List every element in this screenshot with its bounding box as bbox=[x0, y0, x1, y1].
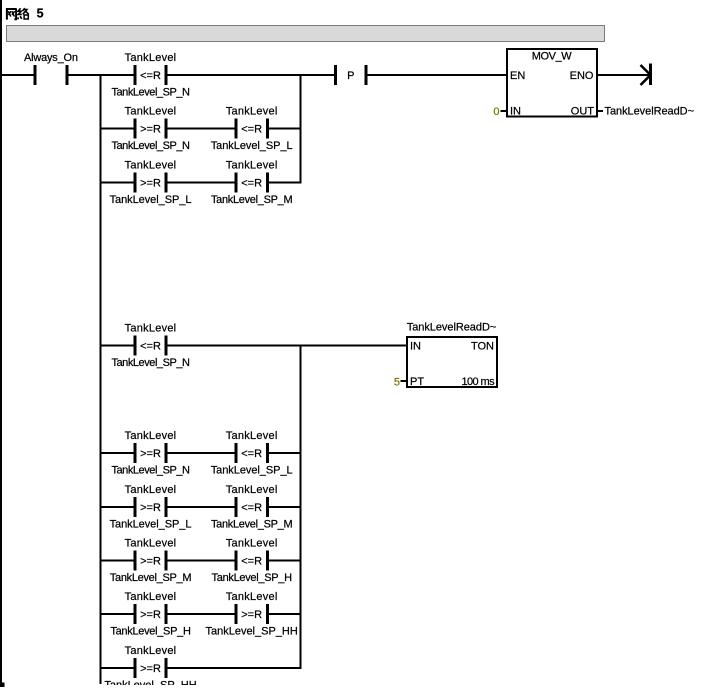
svg-text:TankLevel: TankLevel bbox=[125, 484, 177, 496]
svg-text:TON: TON bbox=[471, 341, 494, 353]
svg-text:>=R: >=R bbox=[140, 448, 161, 460]
contact TankLevel >=R TankLevel_SP_HH bbox=[205, 591, 297, 638]
contact TankLevel >=R TankLevel_SP_L bbox=[110, 484, 192, 531]
svg-text:TankLevel: TankLevel bbox=[125, 52, 177, 64]
wire bbox=[102, 560, 134, 562]
box TON timer TankLevelReadD~ bbox=[407, 322, 497, 389]
svg-text:TankLevel_SP_M: TankLevel_SP_M bbox=[211, 519, 293, 531]
wire bbox=[168, 560, 235, 562]
wire bbox=[368, 74, 507, 76]
operand 5 at PT pin bbox=[394, 377, 407, 389]
wire bbox=[269, 560, 302, 562]
wire bbox=[168, 506, 235, 508]
svg-text:0: 0 bbox=[493, 106, 499, 118]
svg-text:<=R: <=R bbox=[241, 556, 262, 568]
contact TankLevel <=R TankLevel_SP_M bbox=[211, 160, 293, 207]
svg-text:5: 5 bbox=[394, 377, 400, 389]
svg-text:>=R: >=R bbox=[140, 178, 161, 190]
svg-text:TankLevel_SP_L: TankLevel_SP_L bbox=[211, 465, 293, 477]
line continuation arrow bbox=[641, 64, 653, 86]
wire bbox=[102, 667, 134, 669]
svg-text:Always_On: Always_On bbox=[24, 52, 78, 64]
wire bbox=[168, 452, 235, 454]
svg-text:TankLevel_SP_N: TankLevel_SP_N bbox=[111, 140, 190, 152]
wire bbox=[68, 74, 99, 76]
wire bbox=[168, 182, 235, 184]
wire bbox=[269, 452, 302, 454]
contact TankLevel <=R TankLevel_SP_M bbox=[211, 484, 293, 531]
svg-text:>=R: >=R bbox=[140, 502, 161, 514]
left power rail bbox=[0, 0, 2, 687]
wire bbox=[168, 128, 235, 130]
svg-text:TankLevel_SP_L: TankLevel_SP_L bbox=[110, 519, 192, 531]
wire bbox=[102, 182, 134, 184]
svg-text:TankLevel_SP_HH: TankLevel_SP_HH bbox=[205, 626, 297, 638]
clip mask bottom bbox=[6, 685, 727, 690]
svg-text:<=R: <=R bbox=[241, 502, 262, 514]
svg-text:>=R: >=R bbox=[140, 663, 161, 675]
wire bbox=[2, 74, 34, 76]
svg-text:IN: IN bbox=[510, 106, 521, 118]
right merge rail (top group) bbox=[300, 74, 302, 184]
contact TankLevel <=R TankLevel_SP_H bbox=[212, 538, 293, 585]
svg-text:TankLevel: TankLevel bbox=[226, 106, 278, 118]
contact TankLevel >=R TankLevel_SP_N bbox=[111, 430, 190, 477]
svg-text:TankLevel: TankLevel bbox=[125, 430, 177, 442]
contact TankLevel >=R TankLevel_SP_HH (clipped) bbox=[104, 645, 196, 690]
contact TankLevel <=R TankLevel_SP_L bbox=[211, 106, 293, 153]
svg-text:TankLevel_SP_H: TankLevel_SP_H bbox=[212, 572, 293, 584]
contact TankLevel >=R TankLevel_SP_H bbox=[110, 591, 191, 638]
operand 0 at IN pin bbox=[493, 106, 506, 118]
svg-text:TankLevel: TankLevel bbox=[226, 484, 278, 496]
contact TankLevel >=R TankLevel_SP_N bbox=[111, 106, 190, 153]
contact TankLevel <=R TankLevel_SP_N (timer rung) bbox=[111, 323, 190, 370]
wire bbox=[269, 613, 302, 615]
right merge rail (lower group) bbox=[300, 345, 302, 670]
box MOV_W bbox=[507, 49, 597, 118]
wire bbox=[168, 613, 235, 615]
svg-text:>=R: >=R bbox=[241, 609, 262, 621]
svg-text:>=R: >=R bbox=[140, 556, 161, 568]
svg-text:TankLevelReadD~: TankLevelReadD~ bbox=[407, 322, 496, 334]
svg-text:TankLevel_SP_H: TankLevel_SP_H bbox=[110, 626, 191, 638]
svg-text:TankLevel_SP_N: TankLevel_SP_N bbox=[111, 465, 190, 477]
svg-text:TankLevel: TankLevel bbox=[125, 160, 177, 172]
svg-text:ENO: ENO bbox=[570, 70, 594, 82]
svg-text:TankLevel: TankLevel bbox=[125, 323, 177, 335]
svg-text:TankLevelReadD~: TankLevelReadD~ bbox=[605, 106, 694, 118]
left power rail stub bbox=[0, 683, 5, 688]
wire bbox=[269, 182, 302, 184]
svg-text:PT: PT bbox=[410, 376, 424, 388]
svg-text:P: P bbox=[347, 70, 354, 82]
svg-text:TankLevel: TankLevel bbox=[226, 591, 278, 603]
wire bbox=[168, 667, 302, 669]
svg-text:5: 5 bbox=[37, 7, 44, 21]
svg-text:TankLevel_SP_N: TankLevel_SP_N bbox=[111, 357, 190, 369]
svg-text:>=R: >=R bbox=[140, 609, 161, 621]
svg-text:TankLevel_SP_M: TankLevel_SP_M bbox=[110, 572, 192, 584]
operand TankLevelReadD~ at OUT pin bbox=[598, 106, 694, 118]
wire bbox=[102, 74, 134, 76]
wire ENO output bbox=[598, 74, 650, 76]
svg-text:TankLevel_SP_M: TankLevel_SP_M bbox=[211, 194, 293, 206]
svg-text:TankLevel_SP_L: TankLevel_SP_L bbox=[110, 194, 192, 206]
wire bbox=[269, 128, 302, 130]
wire bbox=[269, 506, 302, 508]
contact TankLevel >=R TankLevel_SP_L bbox=[110, 160, 192, 207]
left branch rail bbox=[100, 74, 102, 684]
svg-text:<=R: <=R bbox=[241, 178, 262, 190]
network title 网络 5 bbox=[6, 7, 44, 21]
svg-text:TankLevel: TankLevel bbox=[125, 645, 177, 657]
svg-text:EN: EN bbox=[510, 70, 525, 82]
wire bbox=[102, 506, 134, 508]
svg-text:OUT: OUT bbox=[571, 106, 595, 118]
contact TankLevel <=R TankLevel_SP_N bbox=[111, 52, 190, 99]
svg-text:MOV_W: MOV_W bbox=[532, 51, 573, 63]
wire bbox=[102, 128, 134, 130]
svg-text:100 ms: 100 ms bbox=[462, 376, 496, 388]
wire bbox=[168, 345, 407, 347]
svg-text:TankLevel_SP_N: TankLevel_SP_N bbox=[111, 87, 190, 99]
wire bbox=[102, 345, 134, 347]
wire bbox=[102, 613, 134, 615]
contact P positive edge bbox=[334, 65, 368, 85]
wire bbox=[168, 74, 335, 76]
svg-text:<=R: <=R bbox=[140, 341, 161, 353]
svg-text:<=R: <=R bbox=[140, 70, 161, 82]
contact Always_On bbox=[24, 52, 78, 85]
svg-text:TankLevel: TankLevel bbox=[226, 430, 278, 442]
svg-text:IN: IN bbox=[410, 341, 421, 353]
svg-text:TankLevel_SP_L: TankLevel_SP_L bbox=[211, 140, 293, 152]
svg-text:TankLevel: TankLevel bbox=[125, 538, 177, 550]
contact TankLevel <=R TankLevel_SP_L bbox=[211, 430, 293, 477]
svg-text:<=R: <=R bbox=[241, 448, 262, 460]
svg-text:TankLevel: TankLevel bbox=[226, 538, 278, 550]
svg-text:<=R: <=R bbox=[241, 124, 262, 136]
svg-text:>=R: >=R bbox=[140, 124, 161, 136]
wire bbox=[102, 452, 134, 454]
network comment bar bbox=[7, 26, 605, 42]
svg-text:TankLevel: TankLevel bbox=[226, 160, 278, 172]
svg-text:TankLevel: TankLevel bbox=[125, 591, 177, 603]
svg-text:TankLevel: TankLevel bbox=[125, 106, 177, 118]
contact TankLevel >=R TankLevel_SP_M bbox=[110, 538, 192, 585]
